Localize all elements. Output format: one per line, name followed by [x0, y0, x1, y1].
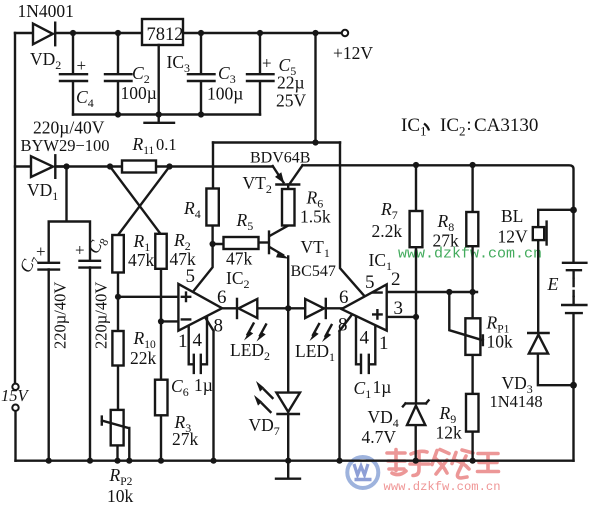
wire BL branch from battery node [538, 210, 573, 227]
watermark red chinese characters [387, 450, 499, 479]
svg-text:47k: 47k [226, 249, 253, 269]
wire R10 bottom to RP2 top [117, 366, 119, 410]
node C5 top [257, 30, 263, 36]
wire R1 column: bottom lead, node, to IC2 plus input [118, 273, 178, 332]
node R11 right [166, 163, 172, 169]
wire crossing X from R11 nodes to R1/R2 [110, 167, 170, 236]
wire capacitor ground bus y=114.5 [73, 113, 260, 115]
WATERMARKS [347, 246, 542, 495]
transistor VT1 emitter with arrowhead [270, 247, 289, 259]
wire R9 bottom lead [471, 432, 473, 461]
svg-text:100µ: 100µ [121, 83, 157, 103]
diode VD1 BYW29-100 [31, 155, 67, 178]
svg-text:LED2: LED2 [230, 340, 270, 363]
svg-text:1: 1 [379, 333, 389, 354]
svg-text:LED1: LED1 [295, 341, 335, 364]
svg-text:+12V: +12V [333, 43, 373, 63]
node C2 top [115, 30, 121, 36]
diode VD3 1N4148 [528, 333, 548, 354]
potentiometer RP2 [102, 410, 130, 461]
wire VD3 anode jog to battery line [538, 354, 574, 386]
node ground C7 [46, 458, 52, 464]
capacitor C5 [247, 33, 274, 115]
svg-text:12V: 12V [498, 227, 529, 247]
wire R7 column: node to box, box to pin3 node, to VD4 [415, 165, 417, 403]
IC3 ground pin and ground [145, 45, 175, 123]
capacitor C7 [39, 263, 60, 270]
svg-text:2: 2 [391, 269, 401, 290]
node ground R3 [158, 458, 164, 464]
buzzer BL [533, 222, 547, 245]
node R7 top [413, 162, 419, 168]
node ground RP2 wiper [126, 458, 132, 464]
svg-text:BL: BL [501, 206, 523, 226]
node +12V corner [312, 139, 318, 145]
wire VD1 node drop and C7/C8 tee [49, 167, 90, 263]
svg-text:5: 5 [186, 266, 196, 287]
resistor R3 [155, 380, 168, 416]
node ground C8 [87, 458, 93, 464]
svg-text:+: + [75, 241, 85, 260]
wire VD7 cathode to ground rail [287, 414, 289, 461]
capacitor C3 [188, 33, 215, 115]
svg-text:1N4001: 1N4001 [18, 1, 74, 21]
svg-text:BC547: BC547 [291, 263, 336, 280]
svg-text:8: 8 [214, 316, 224, 337]
resistor R5 [224, 237, 259, 249]
svg-text:7812: 7812 [147, 25, 184, 45]
svg-text:27k: 27k [433, 231, 460, 251]
resistor R11 0.1 [122, 161, 156, 173]
wire R4 column from y=142.5 to R4, node, to R5 [213, 143, 224, 245]
wire LED2 to center node [257, 307, 288, 309]
transistor VT2 emitter arrowhead [275, 172, 284, 183]
wire center node to LED1 [288, 307, 305, 309]
wire R2 column down to IC2 minus input and R3 [161, 269, 178, 380]
wire VT1 emitter vertical to LED node to VD7 [287, 257, 289, 393]
svg-text:BYW29−100: BYW29−100 [21, 136, 110, 155]
svg-text:10k: 10k [107, 486, 134, 506]
ground under VD7 [276, 461, 300, 479]
svg-text:6: 6 [217, 287, 227, 308]
terminal 15V upper [12, 384, 18, 390]
LED LED2 [237, 299, 266, 342]
node C2 bottom [115, 111, 121, 117]
svg-text:4.7V: 4.7V [362, 427, 397, 447]
wire IC1 pin3 wire [387, 316, 416, 318]
node C3 bottom [198, 111, 204, 117]
node ground IC1 pin8 [336, 458, 342, 464]
svg-text:1.5k: 1.5k [300, 207, 331, 227]
node pin3 R7 [413, 314, 419, 320]
zener diode VD4 [403, 400, 429, 425]
node ground IC2 pin8 [210, 458, 216, 464]
svg-text:+: + [36, 242, 46, 261]
wire IC1 pin8 drop to ground rail [340, 315, 353, 461]
svg-text:100µ: 100µ [207, 84, 243, 104]
svg-text:12k: 12k [436, 423, 463, 443]
svg-text:22µ: 22µ [277, 73, 305, 93]
wire 15V terminal leads [14, 410, 16, 461]
LED VD7 [254, 381, 300, 414]
node ground VD7 [285, 458, 291, 464]
wire R8 column: node to box, box down through pin2 node to RP1 [471, 165, 473, 318]
svg-text:6: 6 [339, 287, 349, 308]
wire horizontal feed y=142.5 from R4 column to IC1 pin5 riser [213, 141, 340, 143]
node +12V branch [312, 30, 318, 36]
wire C7 lower lead to ground rail [48, 270, 50, 461]
battery E [562, 263, 586, 313]
op-amp IC1 [342, 284, 387, 330]
wire right supply segment y=165 to battery corner [303, 165, 574, 261]
resistor R4 [206, 189, 218, 226]
wire VT2 emitter diagonal from rail [273, 166, 284, 183]
wire VD4 bottom lead [415, 425, 417, 461]
terminal +12V [342, 30, 348, 36]
svg-text:25V: 25V [276, 91, 307, 111]
node pin2 R8 [470, 289, 476, 295]
svg-text:47k: 47k [128, 250, 155, 270]
wire C8 lower lead to ground rail [89, 268, 91, 461]
wire VT1 collector to R6 bottom [270, 226, 289, 237]
svg-text:BDV64B: BDV64B [250, 150, 310, 167]
wire left vertical bus x=15 [14, 33, 16, 384]
svg-text:www.dzkfw.com.cn: www.dzkfw.com.cn [384, 480, 501, 494]
wire IC2 pin5 drop and diagonal [194, 244, 212, 290]
wire LED1 to IC1 apex [326, 307, 342, 309]
transistor VT1 BC547 base bar [268, 232, 270, 254]
svg-text:E: E [547, 274, 559, 294]
wire IC2 output to LED2 [222, 307, 237, 309]
wire RP1 bottom to R9 [471, 355, 473, 394]
node VD1 output [63, 163, 69, 169]
wire R3 bottom lead [160, 415, 162, 460]
op-amp IC2 [178, 284, 222, 331]
svg-text:4: 4 [193, 330, 203, 351]
wire top supply rail y=33 [15, 32, 341, 34]
svg-text:0.1: 0.1 [156, 135, 177, 154]
wire second supply rail y=166.5 [15, 165, 273, 167]
node R8 top [470, 162, 476, 168]
node R11 left [107, 163, 113, 169]
node R1 R10 junction [115, 294, 121, 300]
wire VT2 collector diagonal to right rail [290, 165, 303, 184]
regulator IC3 7812 box [142, 19, 184, 45]
capacitor C8 [80, 261, 101, 268]
svg-text:4: 4 [360, 328, 370, 349]
svg-text:1µ: 1µ [373, 377, 392, 397]
svg-text:8: 8 [338, 315, 348, 336]
svg-text:10k: 10k [487, 332, 514, 352]
wire battery bottom to ground rail corner [572, 313, 574, 460]
wire R5 right to VT1 base [259, 241, 269, 243]
wire IC2 pin1 pin4 leads with C6 plates [189, 316, 207, 373]
node BL battery [570, 207, 577, 214]
svg-text:220µ/40V: 220µ/40V [33, 118, 105, 138]
svg-text:+: + [77, 56, 87, 75]
watermark blue logo circle [347, 457, 378, 488]
node ground VD4 [413, 458, 419, 464]
node IC3 ground [156, 111, 162, 117]
terminal 15V lower [12, 405, 18, 411]
node VD3 battery [570, 382, 577, 389]
diode VD2 1N4001 [33, 23, 55, 46]
svg-text:5: 5 [365, 272, 375, 293]
wire IC2 pin8 drop to ground rail [205, 318, 213, 461]
node C4 top [70, 30, 76, 36]
potentiometer RP1 [449, 292, 483, 355]
wire VT2 base stub to R6 top [287, 185, 289, 190]
node R2 R3 junction [158, 318, 164, 324]
resistor R7 [410, 211, 423, 247]
wire main ground rail y=460.7 [16, 460, 574, 462]
resistor R6 [282, 189, 295, 226]
LED LED1 [305, 299, 331, 342]
wire RP2 bottom lead [116, 445, 118, 460]
resistor R1 [112, 235, 124, 273]
capacitor C4 [60, 33, 87, 115]
resistor R2 [155, 234, 166, 269]
node LED center [285, 305, 291, 311]
svg-text:3: 3 [394, 298, 404, 319]
svg-text:220µ/40V: 220µ/40V [92, 282, 111, 349]
resistor R8 [466, 212, 478, 246]
svg-text:220µ/40V: 220µ/40V [51, 282, 70, 349]
svg-text:1: 1 [178, 331, 188, 352]
node ground RP2 [114, 458, 120, 464]
svg-text::: : [467, 114, 472, 134]
transistor VT2 BDV64B base bar [276, 183, 299, 185]
node ground R9 [470, 458, 476, 464]
svg-text:1N4148: 1N4148 [490, 392, 543, 411]
node pin2 wiper [446, 289, 452, 295]
wire +12V riser from node (315.5,33) down to 142.5 [314, 33, 316, 143]
svg-text:+: + [262, 54, 272, 73]
svg-text:15V: 15V [1, 386, 30, 405]
node R4 R5 junction [210, 241, 216, 247]
resistor R9 [466, 394, 479, 432]
resistor R10 [112, 331, 123, 366]
svg-text:CA3130: CA3130 [474, 115, 538, 136]
wire IC1 pin2 output wire [387, 291, 477, 293]
wire IC1 pin5 riser x=340 down then diagonal to IC1 top edge [340, 143, 364, 296]
node C3 top [198, 30, 204, 36]
wire BL bottom to VD3 [537, 240, 539, 333]
svg-text:1µ: 1µ [194, 375, 213, 395]
svg-text:22k: 22k [130, 348, 157, 368]
wire IC1 pin4 pin1 leads with C1 plates [356, 316, 375, 373]
capacitor C2 [105, 33, 132, 115]
svg-text:27k: 27k [172, 429, 199, 449]
svg-text:2.2k: 2.2k [372, 221, 403, 241]
